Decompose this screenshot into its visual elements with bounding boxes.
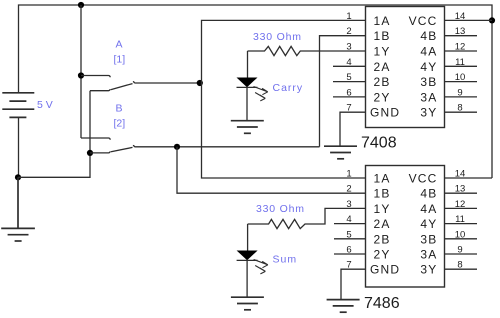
7486 pin labels left (370, 172, 400, 277)
svg-text:VCC: VCC (409, 14, 438, 28)
svg-text:1Y: 1Y (374, 202, 391, 216)
switch B throw bottom contact (90, 151, 110, 153)
svg-text:14: 14 (455, 169, 466, 180)
svg-text:2B: 2B (374, 232, 391, 246)
svg-text:7: 7 (346, 260, 351, 271)
svg-text:10: 10 (455, 72, 466, 83)
svg-text:4B: 4B (420, 187, 437, 201)
svg-text:3Y: 3Y (420, 263, 437, 277)
wire switch B common (135, 146, 320, 148)
7486 pin labels right (409, 172, 438, 277)
7486 pin numbers left (346, 169, 351, 271)
wire ground to switches (18, 91, 90, 178)
svg-text:1A: 1A (374, 14, 391, 28)
svg-text:3: 3 (346, 42, 351, 53)
svg-text:2A: 2A (374, 217, 391, 231)
svg-text:1Y: 1Y (374, 45, 391, 59)
svg-text:4B: 4B (420, 29, 437, 43)
svg-text:1: 1 (346, 11, 351, 22)
IC U1 7408 box (366, 7, 445, 128)
svg-text:2: 2 (346, 26, 351, 37)
IC U2 7486 box (366, 166, 445, 288)
svg-text:12: 12 (455, 199, 466, 210)
svg-text:5: 5 (346, 229, 351, 240)
LED D2 arrows (254, 260, 268, 268)
LED D1 arrows (254, 87, 268, 95)
wire 7408 pin14 to VCC rail (445, 19, 493, 21)
7486 pin7 GND wire (341, 269, 366, 299)
svg-text:11: 11 (455, 57, 465, 68)
svg-text:6: 6 (346, 245, 351, 256)
node B junction (174, 144, 180, 150)
svg-text:9: 9 (457, 87, 462, 98)
svg-text:3: 3 (346, 199, 351, 210)
svg-text:GND: GND (370, 106, 400, 120)
wire top rail (19, 5, 493, 178)
svg-text:2B: 2B (374, 75, 391, 89)
svg-text:1B: 1B (374, 187, 391, 201)
svg-text:1A: 1A (374, 172, 391, 186)
svg-text:Carry: Carry (273, 82, 304, 94)
svg-text:[2]: [2] (114, 117, 126, 129)
resistor R1 330 Ohm (248, 46, 366, 55)
svg-text:4A: 4A (420, 202, 437, 216)
node A junction (197, 80, 203, 86)
svg-text:3A: 3A (420, 90, 437, 104)
7408 pin labels right (409, 14, 438, 120)
ground 7486 (327, 300, 360, 313)
wire node A to 7408 pin1 and 7486 pin1 (202, 20, 366, 178)
svg-text:A: A (116, 39, 123, 51)
svg-text:13: 13 (455, 26, 466, 37)
svg-text:4Y: 4Y (420, 60, 437, 74)
svg-text:5: 5 (346, 72, 351, 83)
svg-text:2: 2 (346, 184, 351, 195)
7408 right pin stubs 13-8 (445, 36, 478, 113)
svg-text:3Y: 3Y (420, 106, 437, 120)
svg-text:10: 10 (455, 229, 466, 240)
7408 pin numbers right (455, 11, 466, 114)
7486 left pin stubs 4 5 6 (334, 224, 366, 254)
svg-text:8: 8 (457, 103, 462, 114)
switch B lever (111, 146, 135, 152)
LED D1 Carry (247, 51, 249, 78)
svg-text:4: 4 (346, 214, 351, 225)
svg-text:2A: 2A (374, 60, 391, 74)
svg-text:2Y: 2Y (374, 248, 391, 262)
ground LED sum (231, 297, 264, 310)
switch B throw top contact (81, 138, 110, 140)
7408 pin7 GND wire (340, 112, 366, 146)
svg-text:7: 7 (346, 103, 351, 114)
node junction switch commons ground (87, 150, 93, 156)
resistor R2 330 Ohm (248, 208, 366, 228)
svg-text:[1]: [1] (114, 54, 126, 66)
switch A throw bottom contact (90, 89, 110, 91)
7408 left pin stubs 4 5 6 (333, 66, 366, 97)
node junction switch A top (78, 72, 84, 78)
battery V1 (2, 93, 34, 118)
node junction top-left (78, 2, 84, 8)
wire switch A common (135, 82, 200, 84)
switch A throw top contact (81, 76, 110, 78)
wire node B to 7486 pin2 (177, 147, 366, 193)
svg-text:3A: 3A (420, 248, 437, 262)
7408 pin labels left (370, 14, 400, 120)
wire A rail (80, 5, 82, 138)
svg-text:14: 14 (455, 11, 466, 22)
7486 right pin stubs 13-8 (445, 193, 478, 269)
svg-text:4Y: 4Y (420, 217, 437, 231)
svg-text:7486: 7486 (364, 295, 400, 312)
svg-text:9: 9 (457, 245, 462, 256)
LED D2 Sum (247, 224, 249, 251)
ground battery (1, 177, 35, 241)
7408 pin numbers left (346, 11, 351, 114)
svg-text:4: 4 (346, 57, 351, 68)
svg-text:VCC: VCC (409, 172, 438, 186)
svg-text:Sum: Sum (273, 254, 298, 266)
svg-text:12: 12 (455, 42, 466, 53)
node junction battery negative (15, 174, 21, 180)
svg-text:3B: 3B (420, 232, 437, 246)
svg-text:4A: 4A (420, 45, 437, 59)
svg-text:3B: 3B (420, 75, 437, 89)
svg-text:2Y: 2Y (374, 90, 391, 104)
ground LED carry (231, 121, 264, 134)
svg-text:13: 13 (455, 184, 466, 195)
svg-text:1: 1 (346, 169, 351, 180)
switch A lever (111, 82, 135, 90)
svg-text:GND: GND (370, 263, 400, 277)
svg-text:8: 8 (457, 260, 462, 271)
svg-text:11: 11 (455, 214, 465, 225)
wire node B to 7408 pin2 (320, 36, 366, 147)
svg-text:7408: 7408 (361, 135, 397, 152)
svg-text:1B: 1B (374, 29, 391, 43)
svg-text:330 Ohm: 330 Ohm (256, 203, 305, 215)
node junction VCC pin14 (489, 17, 495, 23)
wire 7486 pin14 to VCC rail (445, 177, 493, 179)
svg-text:6: 6 (346, 87, 351, 98)
ground 7408 (324, 146, 357, 159)
7486 pin numbers right (455, 169, 466, 271)
svg-text:330 Ohm: 330 Ohm (253, 31, 302, 43)
svg-text:5 V: 5 V (37, 99, 53, 111)
svg-text:B: B (116, 102, 123, 114)
wire battery negative (18, 117, 20, 177)
